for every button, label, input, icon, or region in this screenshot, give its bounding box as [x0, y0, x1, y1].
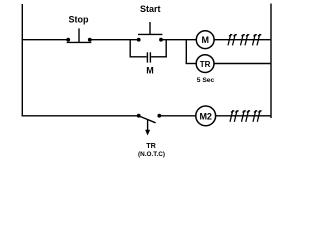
svg-text:M: M: [201, 35, 209, 45]
wire: branch to M contact: [130, 56, 147, 58]
motor starter coil M: [196, 31, 214, 49]
svg-text:5 Sec: 5 Sec: [197, 77, 215, 84]
wire: TR branch drop from rung 1: [185, 39, 187, 64]
svg-text:Stop: Stop: [69, 14, 89, 24]
overload heater marks (rung 1): [228, 34, 261, 45]
svg-text:TR: TR: [146, 141, 156, 150]
wire: TR contact to M2 coil: [159, 115, 196, 117]
overload heater marks (rung 2): [230, 110, 262, 122]
wire: M coil to right rail through overloads: [214, 39, 271, 41]
wire: M contact to right riser: [151, 56, 167, 58]
stop pushbutton NC contact: [66, 28, 91, 42]
M auxiliary contact parallel branch: left drop wire: [129, 39, 131, 57]
wire: M2 coil to right rail through overloads: [216, 115, 271, 117]
svg-text:TR: TR: [200, 60, 211, 69]
riser wire back to rung: [165, 39, 167, 57]
timer relay coil TR: [196, 55, 214, 73]
TR timed contact N.O.T.C.: [137, 114, 161, 136]
svg-text:(N.O.T.C): (N.O.T.C): [138, 151, 165, 158]
start pushbutton NO contact: [137, 22, 163, 42]
svg-text:M: M: [146, 66, 154, 76]
svg-text:M2: M2: [199, 111, 212, 121]
left power rail: [21, 4, 23, 117]
M holding contact (NO): [147, 52, 150, 62]
wire: TR coil to right rail: [214, 63, 271, 65]
motor starter coil M2: [196, 106, 216, 126]
wire: left rail to TR contact (rung 2): [22, 115, 138, 117]
wire: left rail to Stop contact (rung 1): [22, 39, 67, 41]
wire: Stop to Start contact: [90, 39, 139, 41]
right power rail: [270, 4, 272, 119]
svg-text:Start: Start: [140, 4, 161, 14]
wire: drop to TR coil: [186, 63, 197, 65]
wire: Start to M coil with junctions: [161, 39, 196, 41]
